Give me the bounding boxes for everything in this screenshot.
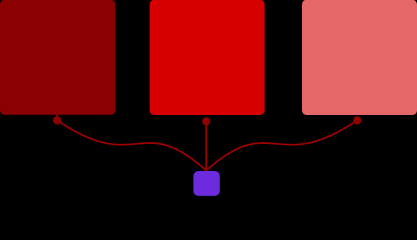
node box2 (red) bbox=[150, 0, 265, 115]
node purple square bbox=[193, 171, 219, 196]
wire left: box1 dot to purple node bbox=[57, 120, 206, 170]
stem under box1 bbox=[56, 113, 58, 121]
node box1 (dark red) bbox=[0, 0, 115, 115]
wire middle: box2 dot to purple node bbox=[205, 121, 207, 172]
endpoint dot under box1 bbox=[53, 116, 61, 124]
endpoint dot under box2 bbox=[202, 117, 210, 125]
endpoint dot under box3 bbox=[353, 116, 361, 124]
node box3 (light red) bbox=[302, 0, 417, 115]
wire right: box3 dot to purple node bbox=[206, 120, 357, 170]
arrowhead at purple node bbox=[204, 168, 208, 172]
